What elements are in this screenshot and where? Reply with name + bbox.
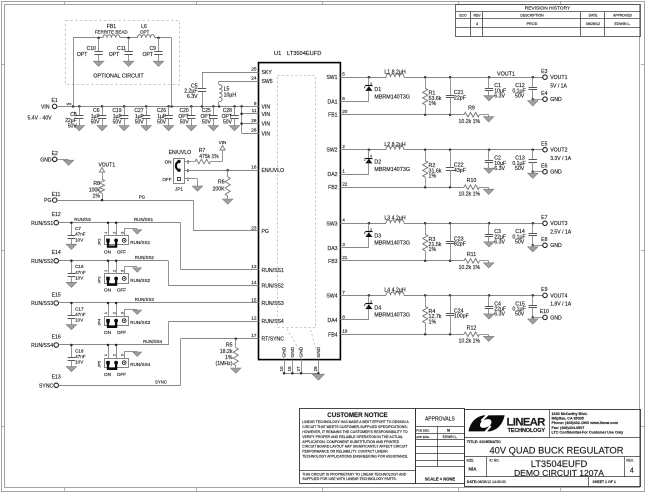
svg-text:GND: GND bbox=[40, 157, 52, 163]
svg-text:PG: PG bbox=[44, 198, 51, 204]
turret E6 GND bbox=[533, 164, 562, 176]
capacitor C21 bbox=[446, 77, 467, 115]
svg-text:D1: D1 bbox=[374, 87, 381, 93]
svg-text:7: 7 bbox=[342, 290, 345, 295]
svg-text:29: 29 bbox=[313, 366, 318, 372]
turret E15 RUN/SS3 bbox=[31, 292, 61, 307]
jumper JP4 bbox=[96, 303, 150, 335]
svg-text:3: 3 bbox=[342, 242, 345, 247]
svg-text:50V: 50V bbox=[202, 119, 212, 125]
svg-text:ON: ON bbox=[104, 330, 111, 335]
svg-text:E1: E1 bbox=[51, 98, 57, 104]
wire RUN/SS1 net to pin 13 bbox=[59, 221, 259, 269]
svg-text:E12: E12 bbox=[52, 212, 61, 218]
svg-text:FERRITE BEAD: FERRITE BEAD bbox=[95, 30, 129, 35]
svg-text:SKY: SKY bbox=[262, 70, 273, 76]
wire optional circuit rail bbox=[73, 37, 172, 107]
svg-text:GND: GND bbox=[550, 170, 562, 176]
svg-text:EDWIN L.: EDWIN L. bbox=[615, 22, 631, 26]
capacitor C28 bbox=[222, 106, 240, 130]
svg-text:CIRCUIT THAT MEETS CUSTOMER-SU: CIRCUIT THAT MEETS CUSTOMER-SUPPLIED SPE… bbox=[302, 425, 407, 429]
svg-text:1.8V / 1A: 1.8V / 1A bbox=[550, 302, 572, 308]
diode D4 MBRM140T3G bbox=[364, 295, 410, 320]
ground below R11 bbox=[484, 263, 494, 268]
svg-text:28: 28 bbox=[251, 128, 257, 133]
op-amp U1 LT3504EUFD IC body bbox=[259, 51, 341, 360]
svg-text:47nF: 47nF bbox=[75, 354, 86, 359]
svg-text:40V QUAD BUCK REGULATOR: 40V QUAD BUCK REGULATOR bbox=[490, 446, 624, 456]
resistor R6 bbox=[212, 170, 230, 199]
resistor R2 bbox=[423, 150, 442, 188]
svg-text:FB3: FB3 bbox=[328, 259, 338, 265]
svg-text:D2: D2 bbox=[374, 160, 381, 166]
resistor R10 bbox=[459, 178, 489, 197]
resistor R7 bbox=[184, 148, 222, 164]
svg-text:VOUT1: VOUT1 bbox=[550, 75, 567, 81]
svg-text:RUN/SS3: RUN/SS3 bbox=[135, 297, 155, 302]
svg-text:RUN/SS1: RUN/SS1 bbox=[31, 221, 53, 227]
capacitor C16 bbox=[66, 261, 86, 288]
capacitor C24 bbox=[446, 295, 470, 334]
svg-text:MBRM140T3G: MBRM140T3G bbox=[374, 241, 410, 247]
svg-text:MBRM140T3G: MBRM140T3G bbox=[374, 94, 410, 100]
turret E5 VOUT2 bbox=[541, 142, 572, 162]
svg-text:9: 9 bbox=[254, 101, 257, 106]
capacitor C26 bbox=[157, 106, 174, 130]
svg-text:50V: 50V bbox=[91, 119, 101, 125]
turret E8 GND bbox=[533, 237, 562, 249]
svg-text:11: 11 bbox=[252, 108, 257, 113]
svg-text:E7: E7 bbox=[541, 215, 547, 221]
capacitor C4 bbox=[485, 295, 506, 317]
svg-text:100k: 100k bbox=[89, 187, 101, 193]
wire DA3 bbox=[340, 247, 369, 249]
svg-text:E4: E4 bbox=[541, 91, 547, 97]
capacitor C19 bbox=[112, 106, 129, 130]
svg-text:RUN/SS1: RUN/SS1 bbox=[134, 217, 154, 222]
svg-text:CUSTOMER NOTICE: CUSTOMER NOTICE bbox=[327, 412, 387, 419]
svg-text:E8: E8 bbox=[541, 237, 547, 243]
svg-text:L4 4.2µH: L4 4.2µH bbox=[384, 288, 405, 294]
svg-text:DESCRIPTION: DESCRIPTION bbox=[520, 14, 544, 18]
wire FB1 bbox=[340, 113, 464, 116]
ground below C3 bbox=[484, 242, 494, 247]
svg-text:19: 19 bbox=[342, 329, 348, 334]
svg-text:VIN: VIN bbox=[262, 104, 271, 110]
inductor L1 bbox=[384, 69, 405, 77]
svg-text:LT3504EUFD: LT3504EUFD bbox=[287, 51, 321, 57]
svg-text:RUN/SS4: RUN/SS4 bbox=[262, 319, 284, 325]
capacitor C20 bbox=[178, 106, 196, 130]
ground below R5 bbox=[231, 368, 241, 373]
svg-text:VIN: VIN bbox=[262, 112, 271, 118]
svg-text:50V: 50V bbox=[180, 119, 190, 125]
svg-text:SCALE = NONE: SCALE = NONE bbox=[425, 477, 456, 482]
svg-text:VIN: VIN bbox=[219, 140, 227, 145]
svg-text:C7: C7 bbox=[75, 226, 81, 231]
svg-text:E9: E9 bbox=[541, 287, 547, 293]
svg-text:R9: R9 bbox=[468, 106, 475, 112]
svg-text:VOUT1: VOUT1 bbox=[98, 162, 115, 168]
customer notice box bbox=[300, 409, 416, 484]
wire RUN/SS3 net label bbox=[135, 297, 155, 302]
turret E11 PG bbox=[44, 192, 60, 204]
svg-text:E3: E3 bbox=[541, 69, 547, 75]
svg-text:50V: 50V bbox=[515, 312, 525, 318]
svg-text:L1 8.2µH: L1 8.2µH bbox=[384, 69, 405, 75]
ground below C1 bbox=[484, 96, 494, 101]
svg-text:6.3V: 6.3V bbox=[494, 240, 505, 246]
turret E13 SYNC bbox=[39, 375, 61, 390]
svg-text:SW1: SW1 bbox=[326, 75, 337, 81]
svg-text:6.3V: 6.3V bbox=[494, 94, 505, 100]
svg-text:APPROVED: APPROVED bbox=[613, 14, 632, 18]
svg-text:DA4: DA4 bbox=[327, 318, 337, 324]
svg-text:RUN/SS2: RUN/SS2 bbox=[31, 259, 53, 265]
svg-text:RUN/SS2: RUN/SS2 bbox=[135, 255, 155, 260]
svg-text:475k 1%: 475k 1% bbox=[199, 154, 219, 160]
svg-text:10: 10 bbox=[279, 366, 284, 372]
resistor R8 bbox=[89, 179, 105, 200]
ground at JP5 pin3 bbox=[133, 352, 142, 356]
turret E9 VOUT4 bbox=[541, 287, 572, 307]
wire SW2 rail bbox=[340, 148, 542, 151]
svg-text:FB4: FB4 bbox=[328, 332, 338, 338]
svg-text:C10: C10 bbox=[87, 46, 97, 52]
svg-text:RUN/SS2: RUN/SS2 bbox=[130, 278, 150, 283]
svg-text:LINEAR: LINEAR bbox=[507, 417, 546, 429]
svg-text:U1: U1 bbox=[274, 51, 281, 57]
wire JP1 pin2 to EN/UVLO pin16 bbox=[184, 169, 258, 172]
ground below C12 bbox=[528, 101, 538, 106]
svg-text:TECHNOLOGY: TECHNOLOGY bbox=[508, 428, 546, 434]
svg-text:SYNC: SYNC bbox=[39, 383, 53, 389]
svg-text:R6: R6 bbox=[218, 180, 225, 186]
capacitor C25 bbox=[201, 106, 219, 130]
svg-text:27: 27 bbox=[296, 366, 301, 372]
svg-text:VOUT3: VOUT3 bbox=[550, 221, 567, 227]
inductor L5 bbox=[219, 81, 259, 106]
svg-text:FB1: FB1 bbox=[328, 113, 338, 119]
svg-text:24: 24 bbox=[251, 76, 257, 81]
capacitor C9 bbox=[143, 38, 164, 67]
svg-text:SW5: SW5 bbox=[262, 79, 273, 85]
svg-text:TITLE: SCHEMATIC: TITLE: SCHEMATIC bbox=[467, 440, 501, 444]
svg-text:TECHNOLOGY APPLICATIONS ENGINE: TECHNOLOGY APPLICATIONS ENGINEERING FOR … bbox=[302, 455, 408, 459]
svg-text:R7: R7 bbox=[199, 148, 206, 154]
svg-text:RUN/SS4: RUN/SS4 bbox=[31, 343, 53, 349]
wire RUN/SS3 net to pin 15 bbox=[59, 302, 259, 305]
capacitor C2 bbox=[485, 150, 506, 172]
svg-text:E2: E2 bbox=[52, 151, 58, 157]
svg-text:JP5: JP5 bbox=[96, 360, 101, 368]
svg-text:OPT: OPT bbox=[140, 30, 150, 35]
title block box bbox=[465, 409, 641, 486]
svg-text:EN/UVLO: EN/UVLO bbox=[262, 168, 285, 174]
diode D2 MBRM140T3G bbox=[364, 150, 410, 175]
approvals box bbox=[415, 409, 465, 484]
U1 GND pins 10 18 27 29 bbox=[279, 346, 322, 374]
svg-text:DATE:: DATE: bbox=[467, 480, 477, 484]
capacitor C1 bbox=[485, 77, 506, 99]
Linear Technology logo bbox=[469, 415, 546, 434]
svg-text:8: 8 bbox=[342, 314, 345, 319]
svg-text:6: 6 bbox=[342, 96, 345, 101]
svg-text:LINEAR TECHNOLOGY HAS MADE A B: LINEAR TECHNOLOGY HAS MADE A BEST EFFORT… bbox=[302, 420, 409, 424]
ground at JP2 pin3 bbox=[133, 230, 142, 234]
ferrite bead FB1 bbox=[95, 24, 129, 38]
svg-text:D4: D4 bbox=[374, 305, 381, 311]
svg-text:RT/SYNC: RT/SYNC bbox=[262, 337, 285, 343]
svg-text:50V: 50V bbox=[157, 119, 167, 125]
capacitor C23 bbox=[446, 223, 467, 260]
svg-text:4: 4 bbox=[476, 22, 478, 26]
svg-text:RUN/SS: RUN/SS bbox=[74, 217, 91, 222]
svg-text:REVISION HISTORY: REVISION HISTORY bbox=[525, 6, 571, 12]
svg-text:DEMO CIRCUIT 1207A: DEMO CIRCUIT 1207A bbox=[514, 468, 604, 478]
svg-text:VERIFY PROPER AND RELIABLE OPE: VERIFY PROPER AND RELIABLE OPERATION IN … bbox=[302, 435, 403, 439]
svg-text:APP ENG.: APP ENG. bbox=[416, 435, 430, 439]
svg-text:ECO: ECO bbox=[459, 14, 467, 18]
svg-text:SW2: SW2 bbox=[326, 148, 337, 154]
svg-text:6.3V: 6.3V bbox=[494, 312, 505, 318]
capacitor C10 bbox=[77, 38, 104, 67]
svg-text:JP2: JP2 bbox=[96, 238, 101, 246]
wire SW1 rail bbox=[340, 76, 542, 79]
svg-text:25: 25 bbox=[251, 67, 257, 72]
svg-text:1630 McCarthy Blvd.: 1630 McCarthy Blvd. bbox=[552, 412, 588, 416]
date row text bbox=[467, 480, 616, 484]
svg-text:GND: GND bbox=[550, 315, 562, 321]
svg-text:OFF: OFF bbox=[117, 330, 126, 335]
svg-text:IC NO.: IC NO. bbox=[490, 459, 500, 463]
svg-text:ON: ON bbox=[104, 372, 111, 377]
svg-text:E6: E6 bbox=[541, 164, 547, 170]
wire SYNC net to pin 17 bbox=[59, 337, 259, 385]
ground below R6 bbox=[223, 199, 233, 204]
svg-text:ON: ON bbox=[104, 250, 111, 255]
svg-text:EDWIN L.: EDWIN L. bbox=[443, 435, 458, 439]
capacitor C5 bbox=[184, 72, 258, 106]
turret E7 VOUT3 bbox=[541, 215, 572, 235]
svg-text:SW4: SW4 bbox=[326, 293, 337, 299]
svg-text:SUPPLIED FOR USE WITH LINEAR T: SUPPLIED FOR USE WITH LINEAR TECHNOLOGY … bbox=[302, 477, 396, 481]
svg-text:E15: E15 bbox=[52, 292, 61, 298]
resistor R9 bbox=[459, 106, 489, 125]
wire RUN/SS4 net to pin 12 bbox=[59, 321, 259, 346]
node VIN net arrow bbox=[219, 140, 227, 162]
svg-text:4: 4 bbox=[342, 218, 345, 223]
inductor L2 bbox=[384, 142, 405, 150]
address text bbox=[552, 412, 625, 434]
svg-text:RUN/SS4: RUN/SS4 bbox=[143, 339, 163, 344]
jumper JP3 bbox=[96, 261, 150, 293]
svg-text:E10: E10 bbox=[540, 309, 549, 315]
svg-text:OFF: OFF bbox=[117, 372, 126, 377]
svg-text:100pF: 100pF bbox=[454, 314, 470, 320]
svg-text:5.4V - 40V: 5.4V - 40V bbox=[28, 116, 53, 122]
svg-text:R11: R11 bbox=[467, 252, 476, 258]
wire FB4 bbox=[340, 333, 464, 336]
wire JP5 pin3 to ground bbox=[124, 351, 137, 358]
svg-text:RUN/SS3: RUN/SS3 bbox=[130, 320, 150, 325]
capacitor C27 bbox=[134, 106, 151, 130]
svg-text:R5: R5 bbox=[226, 343, 233, 349]
ground below C2 bbox=[484, 168, 494, 173]
svg-text:VOUT4: VOUT4 bbox=[550, 293, 567, 299]
svg-text:10V: 10V bbox=[75, 318, 84, 323]
svg-text:RUN/SS3: RUN/SS3 bbox=[262, 301, 284, 307]
svg-text:CIRCUIT BOARD LAYOUT MAY SIGNI: CIRCUIT BOARD LAYOUT MAY SIGNIFICANTLY A… bbox=[302, 445, 408, 449]
svg-text:C17: C17 bbox=[75, 306, 84, 311]
svg-text:THIS CIRCUIT IS PROPRIETARY TO: THIS CIRCUIT IS PROPRIETARY TO LINEAR TE… bbox=[302, 472, 406, 476]
svg-text:23: 23 bbox=[251, 225, 257, 230]
wire RUN/SS2 net to pin 14 bbox=[59, 260, 259, 286]
svg-text:2.5V / 1A: 2.5V / 1A bbox=[550, 230, 572, 236]
svg-text:50V: 50V bbox=[515, 94, 525, 100]
capacitor C14 bbox=[512, 223, 537, 247]
svg-text:R10: R10 bbox=[467, 178, 477, 184]
ground below C15 bbox=[528, 319, 538, 324]
svg-text:10.2k 1%: 10.2k 1% bbox=[459, 339, 481, 345]
svg-text:10.2k 1%: 10.2k 1% bbox=[459, 192, 481, 198]
U1 left pin numbers bbox=[251, 67, 257, 339]
wire VIN rail bbox=[57, 102, 259, 108]
svg-text:JP3: JP3 bbox=[96, 276, 101, 284]
capacitor C18 bbox=[66, 345, 86, 372]
svg-text:18.2k: 18.2k bbox=[220, 349, 233, 355]
wire RUN/SS1 net label bbox=[74, 217, 153, 222]
svg-text:2: 2 bbox=[342, 144, 345, 149]
wire JP2 pin3 to ground bbox=[124, 229, 137, 236]
svg-text:5: 5 bbox=[342, 71, 345, 76]
wire PG net bbox=[57, 194, 258, 231]
inductor L6 bbox=[137, 24, 154, 38]
node VOUT1 net arrow bbox=[98, 162, 115, 179]
svg-text:DATE: DATE bbox=[589, 14, 599, 18]
wire FB2 bbox=[340, 186, 464, 189]
turret E3 VOUT1 bbox=[541, 69, 567, 89]
svg-text:3.3V / 1A: 3.3V / 1A bbox=[550, 156, 572, 162]
wire RUN/SS4 net label bbox=[143, 339, 163, 344]
svg-text:ON: ON bbox=[104, 288, 111, 293]
diode D1 MBRM140T3G bbox=[364, 77, 410, 102]
svg-text:21: 21 bbox=[342, 255, 348, 260]
svg-text:06/26/12: 06/26/12 bbox=[586, 22, 600, 26]
svg-text:(1MHz): (1MHz) bbox=[215, 361, 232, 367]
svg-text:FB2: FB2 bbox=[328, 185, 338, 191]
resistor R1 bbox=[423, 77, 442, 115]
svg-text:DA2: DA2 bbox=[327, 172, 337, 178]
svg-text:E16: E16 bbox=[52, 334, 61, 340]
jumper JP5 bbox=[96, 345, 150, 377]
svg-text:SYNC: SYNC bbox=[155, 380, 167, 385]
svg-text:6.3V: 6.3V bbox=[187, 94, 198, 100]
ground below C4 bbox=[484, 314, 494, 319]
revision history table bbox=[455, 5, 640, 37]
svg-text:SIZE: SIZE bbox=[466, 459, 474, 463]
svg-text:PG: PG bbox=[139, 194, 146, 199]
svg-text:RUN/SS4: RUN/SS4 bbox=[130, 362, 150, 367]
svg-text:JP1: JP1 bbox=[175, 187, 183, 192]
svg-text:6.3V: 6.3V bbox=[494, 166, 505, 172]
svg-text:E14: E14 bbox=[52, 250, 61, 256]
wire RUN/SS2 net label bbox=[135, 255, 155, 260]
wire DA1 bbox=[340, 101, 369, 103]
ground at E2 bbox=[63, 160, 73, 165]
svg-text:ON: ON bbox=[165, 159, 172, 164]
svg-text:VIN: VIN bbox=[262, 122, 271, 128]
svg-text:1%: 1% bbox=[93, 194, 101, 200]
jumper JP1 bbox=[162, 150, 191, 192]
svg-text:VIN: VIN bbox=[67, 102, 72, 106]
svg-text:APPROVALS: APPROVALS bbox=[425, 417, 456, 423]
capacitor C11 bbox=[109, 38, 134, 67]
capacitor C6 bbox=[91, 106, 108, 130]
capacitor C8 bbox=[65, 106, 84, 130]
svg-text:SHEET 1 OF 1: SHEET 1 OF 1 bbox=[593, 480, 616, 484]
svg-text:GND: GND bbox=[282, 346, 288, 357]
svg-text:10V: 10V bbox=[75, 275, 84, 280]
svg-text:50V: 50V bbox=[135, 119, 145, 125]
svg-text:GND: GND bbox=[316, 346, 322, 357]
svg-text:14: 14 bbox=[251, 280, 257, 285]
svg-text:OFF: OFF bbox=[162, 177, 171, 182]
svg-text:47nF: 47nF bbox=[75, 312, 86, 317]
svg-text:DA3: DA3 bbox=[327, 246, 337, 252]
svg-text:RUN/SS2: RUN/SS2 bbox=[262, 284, 284, 290]
capacitor C7 bbox=[66, 223, 86, 250]
svg-text:50V: 50V bbox=[68, 123, 78, 129]
svg-text:REV.: REV. bbox=[626, 459, 634, 463]
svg-text:06/26/12 14:30:03: 06/26/12 14:30:03 bbox=[478, 480, 506, 484]
svg-text:GND: GND bbox=[550, 97, 562, 103]
svg-text:10V: 10V bbox=[75, 360, 84, 365]
svg-text:200K: 200K bbox=[212, 186, 225, 192]
ground below C13 bbox=[528, 173, 538, 178]
U1 left pin names bbox=[262, 70, 285, 343]
U1 right pin names bbox=[326, 75, 337, 338]
capacitor C17 bbox=[66, 303, 86, 330]
svg-text:+: + bbox=[73, 111, 75, 115]
svg-text:22pF: 22pF bbox=[454, 95, 467, 101]
svg-text:1%: 1% bbox=[429, 319, 437, 325]
wire JP4 pin3 to ground bbox=[124, 309, 137, 316]
svg-text:C18: C18 bbox=[75, 348, 84, 353]
svg-text:GND: GND bbox=[550, 243, 562, 249]
svg-text:N/A: N/A bbox=[469, 467, 478, 472]
svg-text:VIN: VIN bbox=[41, 104, 50, 110]
U1 internal dashed outline bbox=[278, 76, 319, 357]
wire DA2 bbox=[340, 174, 369, 176]
capacitor C3 bbox=[485, 223, 506, 245]
resistor R11 bbox=[459, 252, 489, 271]
capacitor C13 bbox=[512, 150, 537, 174]
wire SW4 rail bbox=[340, 294, 542, 297]
svg-text:VOUT2: VOUT2 bbox=[550, 148, 567, 154]
svg-text:47nF: 47nF bbox=[75, 270, 86, 275]
svg-text:LTC Confidential-For Customer: LTC Confidential-For Customer Use Only bbox=[552, 430, 625, 434]
svg-text:16: 16 bbox=[251, 165, 257, 170]
title text bbox=[467, 440, 624, 456]
diode D3 MBRM140T3G bbox=[364, 223, 410, 248]
turret E16 RUN/SS4 bbox=[31, 334, 61, 349]
svg-text:1: 1 bbox=[342, 169, 345, 174]
svg-text:VOUT1: VOUT1 bbox=[497, 71, 515, 77]
wire DA4 bbox=[340, 319, 369, 321]
turret E10 GND bbox=[533, 309, 562, 321]
wire VIN bus to pins 11 26 28 bbox=[240, 106, 258, 133]
